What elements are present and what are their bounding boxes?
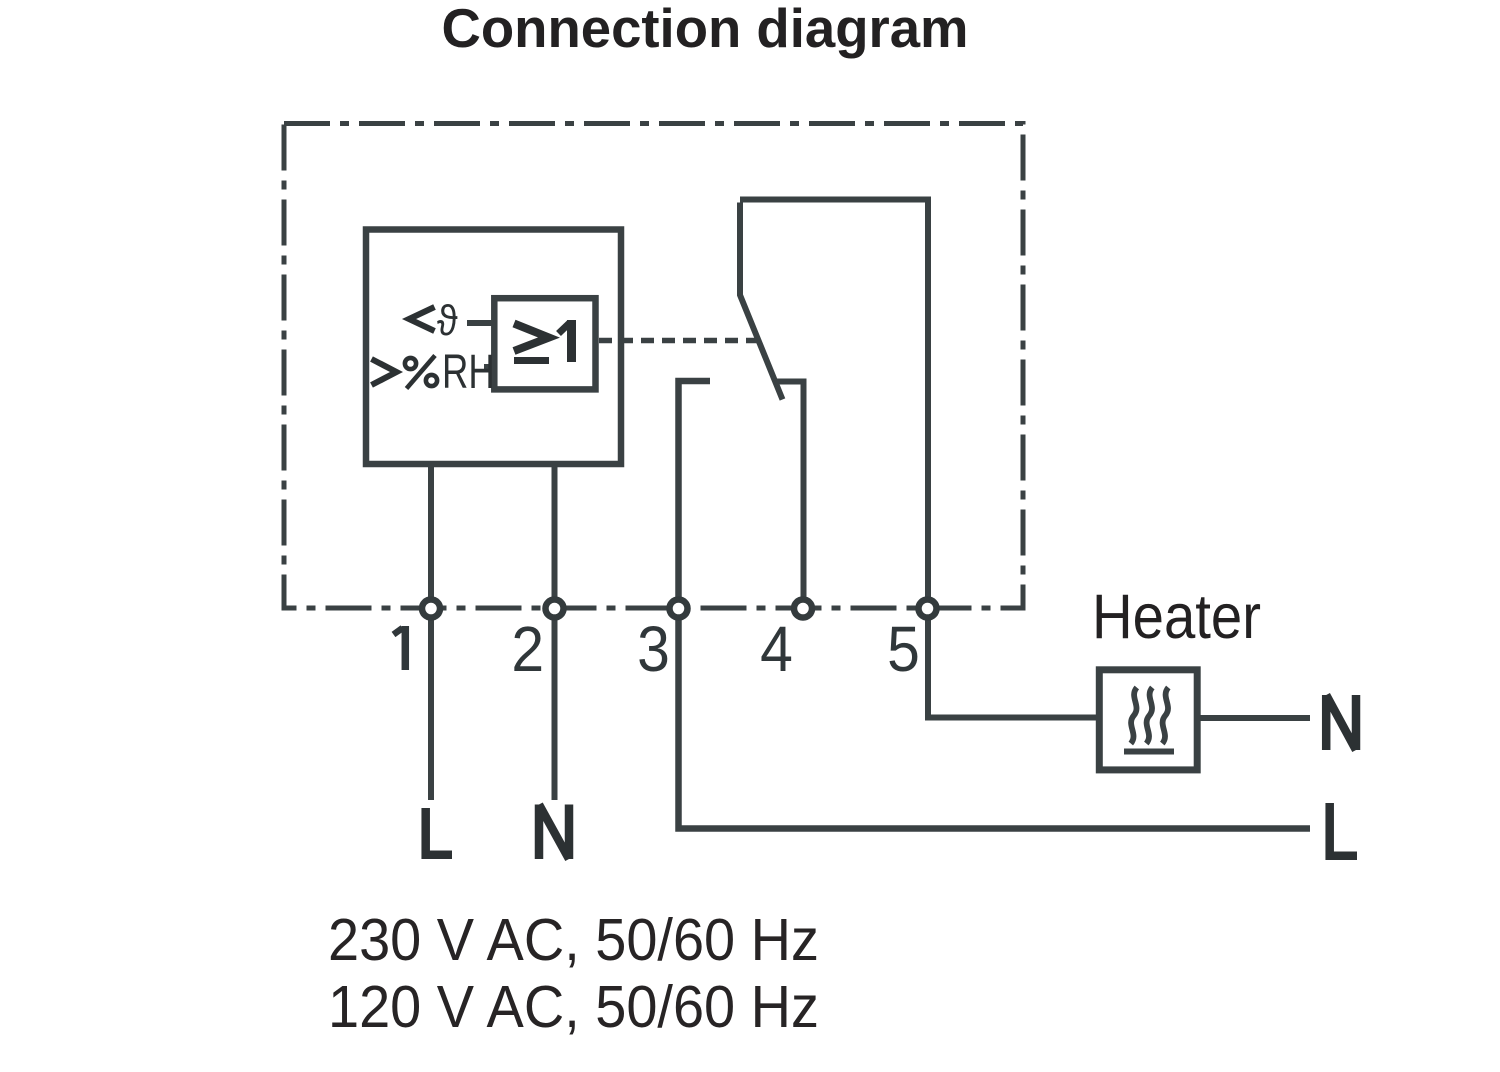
svg-text:RH: RH <box>442 345 495 399</box>
svg-text:Heater: Heater <box>1092 582 1261 652</box>
svg-text:230 V AC, 50/60 Hz: 230 V AC, 50/60 Hz <box>328 906 819 973</box>
svg-text:3: 3 <box>637 614 670 686</box>
svg-text:4: 4 <box>760 614 793 686</box>
svg-text:2: 2 <box>511 614 544 686</box>
svg-text:ϑ: ϑ <box>437 296 458 345</box>
svg-text:120 V AC, 50/60 Hz: 120 V AC, 50/60 Hz <box>328 973 819 1040</box>
svg-text:5: 5 <box>887 614 920 686</box>
svg-text:Connection diagram: Connection diagram <box>442 0 969 59</box>
